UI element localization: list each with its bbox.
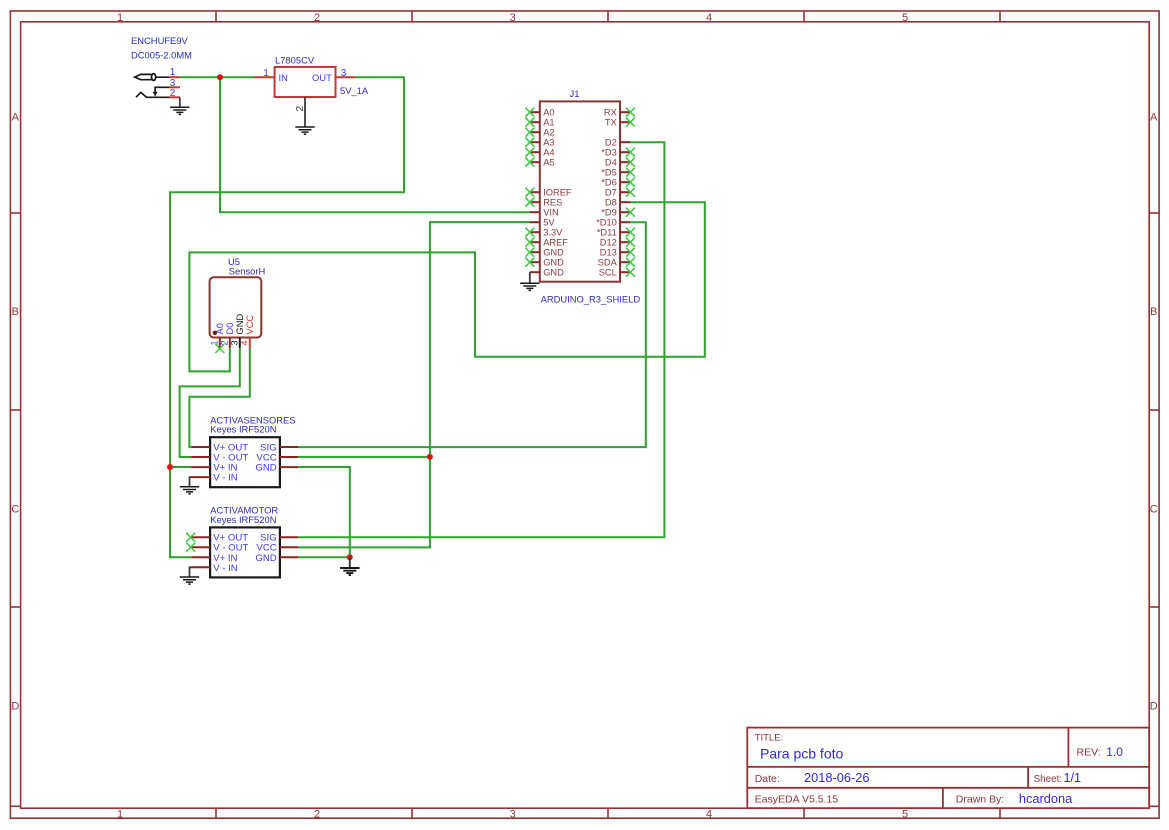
- pin A2 (left) of J1: [525, 128, 554, 138]
- no-connect X at U5 pin 1: [215, 344, 224, 353]
- pin GND (3) of U5: [230, 314, 246, 348]
- connector J1 ARDUINO_R3_SHIELD body: [540, 101, 620, 281]
- svg-text:DC005-2.0MM: DC005-2.0MM: [131, 50, 192, 61]
- pin D2 (right) of J1: [605, 138, 630, 148]
- svg-text:A0: A0: [215, 323, 225, 334]
- svg-text:J1: J1: [570, 88, 580, 99]
- pin D13 (right) of J1: [600, 248, 635, 258]
- svg-text:*D3: *D3: [601, 148, 617, 158]
- pin D0 (2) of U5: [220, 323, 236, 348]
- svg-text:A1: A1: [543, 118, 554, 128]
- pin 3 of ENCHUFE9V: [170, 86, 180, 88]
- svg-text:ARDUINO_R3_SHIELD: ARDUINO_R3_SHIELD: [541, 294, 641, 305]
- pin 5V (left) of J1: [530, 218, 556, 228]
- pin VCC (4) of U5: [240, 315, 256, 348]
- pin A0 (left) of J1: [525, 108, 554, 118]
- svg-text:1/1: 1/1: [1064, 771, 1082, 785]
- sensor U5 body: [210, 277, 262, 337]
- svg-text:IOREF: IOREF: [543, 188, 572, 198]
- svg-text:2: 2: [220, 340, 230, 345]
- wire U5 GND to V- OUT of ACTIVASENSORES: [180, 348, 240, 457]
- svg-text:D: D: [1150, 701, 1158, 713]
- pin GND (left) of J1: [525, 248, 564, 258]
- pin IOREF (left) of J1: [525, 188, 572, 198]
- svg-text:*D11: *D11: [597, 228, 617, 238]
- svg-text:D2: D2: [605, 138, 617, 148]
- pin V+ IN of ACTIVAMOTOR: [192, 553, 238, 564]
- pin 1 of ENCHUFE9V: [170, 76, 180, 78]
- junction GND net: [347, 554, 353, 560]
- svg-text:3.3V: 3.3V: [543, 228, 563, 238]
- wire D2 net: ACTIVAMOTOR SIG to Arduino D2: [298, 142, 664, 537]
- pin GND (left) of J1: [525, 258, 564, 268]
- svg-text:L7805CV: L7805CV: [275, 55, 315, 66]
- svg-text:Date:: Date:: [755, 773, 780, 785]
- svg-text:A: A: [12, 111, 20, 123]
- pin A5 (left) of J1: [525, 158, 554, 168]
- svg-text:GND: GND: [255, 553, 276, 564]
- pin 3.3V (left) of J1: [525, 228, 563, 238]
- svg-text:1: 1: [170, 67, 176, 78]
- svg-text:1: 1: [117, 12, 123, 24]
- pin 2 of L7805CV with ground: [304, 97, 306, 127]
- svg-text:GND: GND: [235, 314, 245, 335]
- pin *D9 (right) of J1: [601, 208, 635, 218]
- wire D10 net: ACTIVASENSORES SIG to Arduino *D10: [298, 222, 646, 447]
- svg-text:SDA: SDA: [598, 258, 618, 268]
- pin 2 of ENCHUFE9V: [170, 96, 180, 98]
- svg-text:A5: A5: [543, 158, 554, 168]
- pin AREF (left) of J1: [525, 238, 568, 248]
- svg-text:D7: D7: [605, 188, 617, 198]
- module ACTIVASENSORES body: [210, 437, 280, 487]
- svg-text:V - IN: V - IN: [213, 563, 238, 574]
- svg-text:RX: RX: [604, 108, 617, 118]
- pin 1 marker dot of U5: [213, 331, 217, 335]
- svg-text:SensorH: SensorH: [229, 266, 265, 277]
- svg-text:Drawn By:: Drawn By:: [956, 794, 1004, 806]
- svg-text:Sheet:: Sheet:: [1034, 774, 1063, 785]
- svg-text:3: 3: [341, 68, 347, 79]
- pin A0 (1) of U5: [210, 323, 226, 348]
- svg-text:*D5: *D5: [601, 168, 617, 178]
- svg-text:VIN: VIN: [543, 208, 559, 218]
- pin *D6 (right) of J1: [601, 178, 635, 188]
- svg-text:V - IN: V - IN: [213, 473, 238, 484]
- pin GND of ACTIVAMOTOR: [255, 553, 298, 564]
- svg-text:*D10: *D10: [596, 218, 617, 228]
- pin 1 IN of L7805CV: [254, 76, 275, 78]
- svg-text:Keyes IRF520N: Keyes IRF520N: [210, 424, 276, 435]
- svg-text:GND: GND: [543, 268, 564, 278]
- svg-text:GND: GND: [543, 258, 564, 268]
- svg-text:3: 3: [510, 809, 516, 821]
- svg-text:REV:: REV:: [1077, 747, 1101, 759]
- svg-text:C: C: [1150, 503, 1158, 515]
- junction at jack/L7805/VIN: [217, 74, 223, 80]
- wire 5V: Arduino 5V to module VCC pins: [298, 222, 530, 547]
- pin VCC of ACTIVAMOTOR: [256, 543, 298, 554]
- regulator L7805CV body: [275, 67, 336, 97]
- wire U5 VCC to V+ OUT of ACTIVASENSORES: [189, 348, 249, 447]
- pin D8 (right) of J1: [605, 198, 630, 208]
- module ACTIVAMOTOR body: [210, 527, 280, 577]
- svg-text:GND: GND: [543, 248, 564, 258]
- svg-text:2018-06-26: 2018-06-26: [804, 770, 869, 785]
- pin TX (right) of J1: [605, 118, 635, 128]
- pin VIN (left) of J1: [530, 208, 559, 218]
- svg-text:1: 1: [210, 340, 220, 345]
- svg-text:4: 4: [706, 12, 712, 24]
- connector ENCHUFE9V DC jack symbol: [135, 74, 170, 98]
- pin V - OUT of ACTIVAMOTOR: [186, 543, 248, 554]
- pin SDA (right) of J1: [598, 258, 635, 268]
- pin SIG of ACTIVAMOTOR: [260, 533, 298, 544]
- svg-text:5: 5: [902, 12, 908, 24]
- pin VCC of ACTIVASENSORES: [256, 453, 298, 464]
- svg-text:2: 2: [314, 12, 320, 24]
- svg-text:A: A: [1150, 111, 1158, 123]
- pin *D5 (right) of J1: [601, 168, 635, 178]
- svg-text:*D6: *D6: [601, 178, 617, 188]
- svg-text:A2: A2: [543, 128, 554, 138]
- svg-text:EasyEDA V5.5.15: EasyEDA V5.5.15: [755, 794, 839, 806]
- svg-text:2: 2: [314, 809, 320, 821]
- pin V+ OUT of ACTIVAMOTOR: [186, 533, 248, 544]
- svg-text:B: B: [12, 306, 19, 318]
- svg-text:5V: 5V: [543, 218, 555, 228]
- title block: [747, 728, 1149, 809]
- svg-text:A3: A3: [543, 138, 554, 148]
- svg-text:2: 2: [295, 106, 306, 112]
- svg-text:RES: RES: [543, 198, 562, 208]
- svg-text:ENCHUFE9V: ENCHUFE9V: [131, 35, 189, 46]
- svg-text:IN: IN: [279, 72, 288, 83]
- pin A1 (left) of J1: [525, 118, 554, 128]
- svg-text:3: 3: [230, 340, 240, 345]
- junction 5V_1A at V+ IN: [167, 464, 173, 470]
- pin SCL (right) of J1: [599, 268, 635, 278]
- pin *D10 (right) of J1: [596, 218, 630, 228]
- pin V - OUT of ACTIVASENSORES: [192, 453, 249, 464]
- pin V - IN of ACTIVAMOTOR: [192, 563, 238, 574]
- pin *D11 (right) of J1: [597, 228, 635, 238]
- svg-text:AREF: AREF: [543, 238, 568, 248]
- pin RES (left) of J1: [525, 198, 562, 208]
- pin V+ OUT of ACTIVASENSORES: [192, 443, 249, 454]
- pin A3 (left) of J1: [525, 138, 554, 148]
- pin D7 (right) of J1: [605, 188, 635, 198]
- svg-text:*D9: *D9: [601, 208, 617, 218]
- svg-text:2: 2: [170, 88, 176, 99]
- svg-text:TITLE:: TITLE:: [755, 733, 784, 744]
- svg-text:VCC: VCC: [245, 315, 255, 335]
- pin D4 (right) of J1: [605, 158, 635, 168]
- svg-text:D: D: [11, 701, 19, 713]
- svg-text:Para pcb foto: Para pcb foto: [760, 746, 843, 762]
- ground at module GND net: [349, 557, 351, 567]
- pin A4 (left) of J1: [525, 148, 554, 158]
- wire module GND net: [298, 467, 350, 557]
- wire 5V_1A: L7805 OUT to V+ IN of modules: [170, 77, 404, 557]
- junction 5V/VCC: [427, 454, 433, 460]
- svg-text:5: 5: [902, 809, 908, 821]
- svg-text:hcardona: hcardona: [1019, 791, 1073, 806]
- svg-text:OUT: OUT: [312, 72, 332, 83]
- ground at J1 GND pin: [520, 272, 539, 290]
- pin D12 (right) of J1: [600, 238, 635, 248]
- svg-text:SCL: SCL: [599, 268, 617, 278]
- ground at ACTIVAMOTOR V- IN: [180, 567, 199, 584]
- svg-text:1: 1: [117, 809, 123, 821]
- svg-text:1.0: 1.0: [1106, 745, 1123, 759]
- svg-text:D8: D8: [605, 198, 617, 208]
- svg-text:4: 4: [240, 340, 250, 345]
- svg-text:D0: D0: [225, 323, 235, 335]
- pin GND (left) of J1: [530, 268, 564, 278]
- svg-text:GND: GND: [255, 463, 276, 474]
- svg-text:C: C: [11, 503, 19, 515]
- svg-text:D12: D12: [600, 238, 617, 248]
- svg-text:B: B: [1150, 306, 1157, 318]
- pin *D3 (right) of J1: [601, 148, 635, 158]
- pin RX (right) of J1: [604, 108, 635, 118]
- ground at ENCHUFE9V pin 2: [179, 97, 181, 107]
- svg-text:Keyes IRF520N: Keyes IRF520N: [210, 514, 276, 525]
- pin V - IN of ACTIVASENSORES: [192, 473, 238, 484]
- pin V+ IN of ACTIVASENSORES: [192, 463, 238, 474]
- svg-text:4: 4: [706, 809, 712, 821]
- svg-text:3: 3: [510, 12, 516, 24]
- pin 3 OUT of L7805CV: [336, 76, 356, 78]
- pin SIG of ACTIVASENSORES: [260, 443, 298, 454]
- svg-text:A4: A4: [543, 148, 554, 158]
- pin GND of ACTIVASENSORES: [255, 463, 298, 474]
- svg-text:1: 1: [263, 68, 269, 79]
- svg-text:D4: D4: [605, 158, 617, 168]
- svg-text:A0: A0: [543, 108, 554, 118]
- svg-text:5V_1A: 5V_1A: [340, 85, 369, 96]
- svg-text:TX: TX: [605, 118, 617, 128]
- wire 9V: jack pin1 to L7805 IN and Arduino VIN: [180, 76, 254, 78]
- svg-text:D13: D13: [600, 248, 617, 258]
- ground at ACTIVASENSORES V- IN: [180, 477, 199, 494]
- wire D8 net: U5 D0 to Arduino D8: [189, 202, 704, 371]
